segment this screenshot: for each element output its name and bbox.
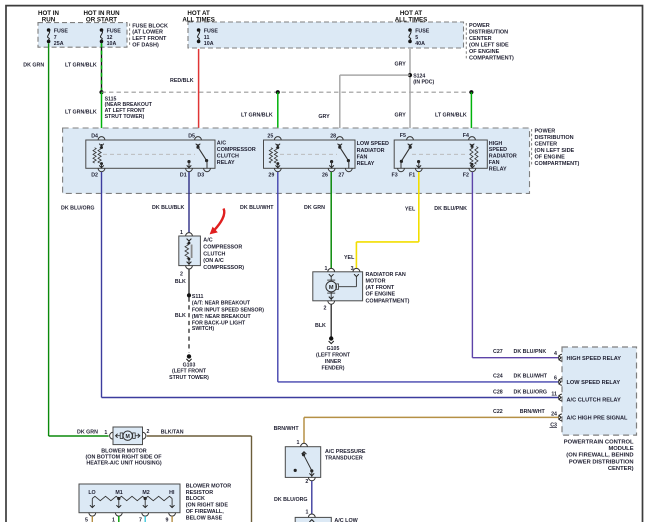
svg-text:FOR INPUT SPEED SENSOR): FOR INPUT SPEED SENSOR) — [192, 307, 264, 313]
svg-text:CENTER: CENTER — [535, 142, 558, 148]
svg-text:LO: LO — [88, 490, 95, 496]
svg-text:LT GRN/BLK: LT GRN/BLK — [65, 63, 97, 69]
svg-text:F4: F4 — [463, 133, 469, 139]
svg-text:(M/T: NEAR BREAKOUT: (M/T: NEAR BREAKOUT — [192, 314, 252, 320]
svg-text:M: M — [329, 285, 334, 291]
svg-text:DK GRN: DK GRN — [23, 63, 44, 69]
svg-text:D5: D5 — [188, 134, 195, 140]
svg-text:7: 7 — [54, 35, 57, 41]
svg-text:FAN: FAN — [357, 155, 368, 161]
svg-text:OF ENGINE: OF ENGINE — [535, 155, 566, 161]
svg-text:(A/T: NEAR BREAKOUT: (A/T: NEAR BREAKOUT — [192, 301, 251, 307]
splice drop to pin 25 — [276, 90, 280, 94]
svg-text:LEFT FRONT: LEFT FRONT — [132, 36, 167, 42]
svg-text:HI: HI — [169, 490, 175, 496]
fuse block (dashed box) — [38, 23, 127, 48]
ground G103 — [187, 354, 191, 358]
svg-text:C22: C22 — [493, 409, 503, 415]
svg-text:LOW SPEED RELAY: LOW SPEED RELAY — [567, 380, 621, 386]
wire LT GRN/BLK splice to relay pin F4 — [470, 92, 472, 140]
blower motor resistor block — [79, 484, 180, 513]
svg-text:DK BLU/ORG: DK BLU/ORG — [514, 390, 548, 396]
wire DK GRN relay 26 to radiator fan motor pin 1 — [330, 172, 332, 268]
splice S115 — [99, 90, 103, 94]
svg-text:STRUT TOWER): STRUT TOWER) — [169, 375, 209, 381]
svg-text:POWERTRAIN CONTROL: POWERTRAIN CONTROL — [564, 440, 634, 446]
svg-text:DK BLU/WHT: DK BLU/WHT — [514, 374, 548, 380]
svg-text:F2: F2 — [463, 173, 469, 179]
svg-text:(ON LEFT SIDE: (ON LEFT SIDE — [535, 148, 575, 154]
svg-text:1: 1 — [306, 510, 309, 516]
svg-text:5: 5 — [85, 518, 88, 522]
relay: high speed radiator fan relay — [394, 140, 487, 168]
svg-text:29: 29 — [268, 173, 274, 179]
svg-text:BLOWER MOTOR: BLOWER MOTOR — [186, 483, 232, 489]
svg-text:DK BLU/WHT: DK BLU/WHT — [240, 205, 274, 211]
svg-text:C27: C27 — [493, 349, 503, 355]
splice bus line from S115 — [102, 91, 472, 93]
svg-text:(ON LEFT SIDE: (ON LEFT SIDE — [469, 43, 509, 49]
svg-text:F3: F3 — [392, 173, 398, 179]
svg-text:M: M — [126, 434, 130, 440]
svg-text:POWER: POWER — [469, 23, 490, 29]
svg-text:BLK: BLK — [175, 279, 186, 285]
switch of relay 2 — [339, 144, 341, 147]
svg-text:OF ENGINE: OF ENGINE — [366, 292, 396, 298]
relay: low speed radiator fan relay — [264, 140, 356, 168]
wire RED/BLK fuse 11 to relay pin D5 — [198, 49, 200, 140]
svg-text:YEL: YEL — [405, 206, 416, 212]
fuse F12 — [100, 28, 104, 32]
svg-text:1: 1 — [112, 518, 115, 522]
svg-text:RESISTOR: RESISTOR — [186, 490, 214, 496]
wire BLK (dashed) S111 to ground G103 — [188, 298, 190, 353]
svg-text:HIGH: HIGH — [489, 141, 503, 147]
power distribution center label (right of relay box) — [531, 129, 533, 165]
svg-text:RELAY: RELAY — [489, 166, 507, 172]
svg-text:DK BLU/PNK: DK BLU/PNK — [514, 349, 547, 355]
svg-text:M2: M2 — [142, 490, 149, 496]
svg-text:BRN/WHT: BRN/WHT — [520, 409, 546, 415]
svg-text:A/C: A/C — [217, 141, 226, 147]
wire BLK clutch pin 2 to S111 — [188, 269, 190, 295]
svg-text:A/C HIGH PRE SIGNAL: A/C HIGH PRE SIGNAL — [567, 416, 628, 422]
svg-text:BELOW BASE: BELOW BASE — [186, 515, 223, 521]
svg-text:(ON RIGHT SIDE: (ON RIGHT SIDE — [186, 503, 229, 509]
svg-text:5: 5 — [415, 35, 418, 41]
svg-text:STRUT TOWER): STRUT TOWER) — [105, 114, 145, 120]
wire DK GRN to blower motor pin 1 — [49, 435, 109, 437]
svg-text:D4: D4 — [91, 134, 98, 140]
svg-text:A/C PRESSURE: A/C PRESSURE — [325, 449, 366, 455]
svg-text:FUSE: FUSE — [204, 29, 219, 35]
svg-text:S111: S111 — [192, 294, 204, 300]
power distribution center fuse box (dashed) — [188, 22, 464, 48]
svg-text:11: 11 — [204, 35, 210, 41]
svg-text:LT GRN/BLK: LT GRN/BLK — [241, 112, 273, 118]
svg-text:CENTER): CENTER) — [608, 466, 634, 472]
svg-text:DK BLU/PNK: DK BLU/PNK — [434, 206, 467, 212]
fuse F7 — [47, 28, 51, 32]
wire stub pin 1 (green) — [118, 516, 120, 522]
svg-text:28: 28 — [330, 134, 336, 140]
svg-text:RADIATOR: RADIATOR — [489, 154, 517, 160]
svg-text:2: 2 — [180, 271, 183, 277]
svg-text:FUSE: FUSE — [415, 29, 430, 35]
svg-text:RELAY: RELAY — [217, 160, 235, 166]
svg-text:MOTOR: MOTOR — [366, 279, 386, 285]
svg-text:27: 27 — [338, 173, 344, 179]
svg-text:BLK: BLK — [175, 313, 186, 319]
wire DK BLU/WHT relay 29 to PCM pin 6 — [277, 172, 279, 382]
wire LT GRN/BLK splice to relay pin 25 — [277, 92, 279, 140]
svg-text:A/C: A/C — [203, 238, 212, 244]
transducer internal switch — [303, 452, 305, 455]
svg-text:11: 11 — [551, 392, 557, 398]
svg-text:(ON A/C: (ON A/C — [203, 258, 224, 264]
svg-text:G105: G105 — [327, 346, 340, 352]
svg-text:2: 2 — [323, 306, 326, 312]
svg-text:BLOCK: BLOCK — [186, 496, 205, 502]
svg-text:24: 24 — [551, 411, 557, 417]
wire YEL relay F1 to radiator fan motor pin 3 — [418, 172, 420, 242]
svg-text:OF DASH): OF DASH) — [132, 42, 159, 48]
svg-text:25A: 25A — [54, 41, 64, 47]
svg-text:DK BLU/BLK: DK BLU/BLK — [152, 205, 185, 211]
svg-text:(AT LOWER: (AT LOWER — [132, 30, 163, 36]
A/C low pressure switch (cut off at page bottom) — [295, 517, 331, 522]
svg-text:FUSE: FUSE — [54, 29, 69, 35]
svg-text:2: 2 — [305, 479, 308, 485]
svg-text:D3: D3 — [197, 173, 204, 179]
wire stub pin 9 (tan) — [171, 516, 173, 522]
svg-text:BLK/TAN: BLK/TAN — [161, 430, 184, 436]
svg-text:FUSE: FUSE — [107, 29, 122, 35]
svg-text:9: 9 — [166, 518, 169, 522]
svg-text:DK BLU/ORG: DK BLU/ORG — [274, 497, 308, 503]
svg-text:G103: G103 — [183, 362, 196, 368]
splice S124 — [408, 73, 412, 77]
svg-text:1: 1 — [104, 430, 107, 436]
svg-text:YEL: YEL — [344, 255, 355, 261]
svg-text:(ON BOTTOM RIGHT SIDE OF: (ON BOTTOM RIGHT SIDE OF — [86, 455, 163, 461]
svg-text:BLOWER MOTOR: BLOWER MOTOR — [101, 449, 147, 455]
svg-text:FUSE BLOCK: FUSE BLOCK — [132, 23, 168, 29]
svg-text:D2: D2 — [91, 173, 98, 179]
svg-text:RELAY: RELAY — [357, 161, 375, 167]
wire DK BLU/ORG transducer pin 2 to A/C low pressure switch — [311, 481, 313, 514]
svg-text:A/C LOW: A/C LOW — [334, 518, 358, 522]
svg-text:7: 7 — [139, 518, 142, 522]
blower motor — [113, 427, 143, 445]
fuse block label — [129, 24, 131, 47]
switch of relay 1 — [197, 144, 199, 147]
svg-text:COMPARTMENT): COMPARTMENT) — [469, 56, 514, 62]
svg-text:DISTRIBUTION: DISTRIBUTION — [535, 135, 574, 141]
svg-text:40A: 40A — [415, 41, 425, 47]
wire DK BLU/BLK relay D1 to A/C compressor clutch — [188, 172, 190, 233]
svg-text:COMPRESSOR): COMPRESSOR) — [203, 265, 244, 271]
svg-text:C28: C28 — [493, 390, 503, 396]
fuse F11 — [197, 28, 201, 32]
svg-text:DK BLU/ORG: DK BLU/ORG — [61, 205, 95, 211]
svg-text:HEATER-A/C UNIT HOUSING): HEATER-A/C UNIT HOUSING) — [86, 461, 162, 467]
motor symbol — [330, 277, 332, 281]
svg-text:INNER: INNER — [325, 359, 341, 365]
svg-text:DISTRIBUTION: DISTRIBUTION — [469, 30, 508, 36]
svg-text:COMPARTMENT): COMPARTMENT) — [535, 161, 580, 167]
svg-text:(LEFT FRONT: (LEFT FRONT — [172, 369, 207, 375]
svg-text:POWER: POWER — [535, 129, 556, 135]
wire LT GRN/BLK fuse12 to S115 (dashed) — [101, 43, 103, 92]
svg-text:4: 4 — [554, 351, 557, 357]
svg-text:BRN/WHT: BRN/WHT — [274, 426, 300, 432]
svg-text:FENDER): FENDER) — [321, 366, 344, 372]
wire GRY branch S124 to relay pin 28 — [340, 74, 410, 76]
svg-text:SWITCH): SWITCH) — [192, 326, 214, 332]
svg-text:HIGH SPEED RELAY: HIGH SPEED RELAY — [567, 356, 622, 362]
svg-text:LT GRN/BLK: LT GRN/BLK — [65, 109, 97, 115]
wire DK GRN from fuse 7 down to blower motor — [48, 43, 50, 436]
power distribution center label (top) — [465, 23, 467, 59]
relay: A/C compressor clutch relay — [86, 140, 215, 168]
A/C compressor clutch coil — [179, 236, 201, 266]
svg-text:CLUTCH: CLUTCH — [203, 251, 225, 257]
svg-text:DK GRN: DK GRN — [304, 205, 325, 211]
svg-text:COMPRESSOR: COMPRESSOR — [203, 244, 242, 250]
wire BRN/WHT A/C pressure transducer to PCM pin 24 — [304, 416, 559, 418]
resistor chain — [92, 496, 119, 500]
red annotation arrow — [214, 209, 224, 231]
wire BLK/TAN blower pin 2 down off page — [147, 435, 252, 437]
svg-text:2: 2 — [147, 429, 150, 435]
svg-text:10A: 10A — [204, 41, 214, 47]
svg-text:COMPRESSOR: COMPRESSOR — [217, 147, 256, 153]
coil of relay 2 — [269, 148, 272, 163]
svg-text:(ON FIREWALL, BEHIND: (ON FIREWALL, BEHIND — [566, 453, 633, 459]
svg-text:RADIATOR FAN: RADIATOR FAN — [366, 272, 406, 278]
coil of relay 1 — [93, 148, 96, 163]
splice S111 — [187, 293, 191, 297]
wire LT GRN/BLK S115 to relay pin D4 — [101, 92, 103, 140]
svg-text:25: 25 — [267, 134, 273, 140]
A/C pressure transducer — [285, 447, 320, 478]
svg-text:C24: C24 — [493, 374, 503, 380]
svg-text:COMPARTMENT): COMPARTMENT) — [366, 298, 410, 304]
svg-text:LT GRN/BLK: LT GRN/BLK — [435, 112, 467, 118]
svg-text:BLK: BLK — [315, 323, 326, 329]
svg-text:FAN: FAN — [489, 160, 500, 166]
svg-text:RED/BLK: RED/BLK — [170, 78, 194, 84]
wire stub pin 7 (cyan) — [144, 516, 146, 522]
power distribution center relay box (dashed) — [63, 128, 530, 193]
clutch coil zigzag — [185, 244, 189, 259]
svg-text:1: 1 — [325, 266, 328, 272]
svg-text:10A: 10A — [107, 41, 117, 47]
svg-text:RADIATOR: RADIATOR — [357, 148, 385, 154]
svg-text:F5: F5 — [400, 133, 406, 139]
splice drop to pin F4 — [469, 90, 473, 94]
svg-text:12: 12 — [107, 35, 113, 41]
svg-text:GRY: GRY — [395, 112, 407, 118]
coil of relay 3 — [470, 147, 473, 165]
svg-text:(AT FRONT: (AT FRONT — [366, 285, 395, 291]
svg-text:MODULE: MODULE — [608, 446, 633, 452]
svg-text:26: 26 — [322, 173, 328, 179]
svg-text:D1: D1 — [180, 173, 187, 179]
svg-text:1: 1 — [180, 230, 183, 236]
svg-text:A/C CLUTCH RELAY: A/C CLUTCH RELAY — [567, 397, 621, 403]
svg-text:M1: M1 — [115, 490, 122, 496]
switch of relay 3 — [409, 144, 411, 147]
svg-text:(IN PDC): (IN PDC) — [413, 79, 434, 85]
svg-text:GRY: GRY — [318, 114, 330, 120]
svg-text:6: 6 — [554, 376, 557, 382]
wire DK BLU/PNK relay F2 to PCM pin 4 — [471, 172, 473, 358]
svg-text:1: 1 — [297, 440, 300, 446]
svg-text:LOW SPEED: LOW SPEED — [357, 141, 389, 147]
svg-text:POWER DISTRIBUTION: POWER DISTRIBUTION — [569, 459, 634, 465]
svg-text:(LEFT FRONT: (LEFT FRONT — [316, 353, 351, 359]
fuse F5 — [408, 28, 412, 32]
svg-text:GRY: GRY — [395, 61, 407, 67]
svg-text:F1: F1 — [409, 173, 415, 179]
wire DK BLU/ORG relay D2 to PCM pin 11 — [101, 172, 103, 398]
svg-text:OF FIREWALL,: OF FIREWALL, — [186, 509, 225, 515]
ground G105 — [329, 336, 333, 340]
svg-text:CENTER: CENTER — [469, 36, 492, 42]
svg-text:OF ENGINE: OF ENGINE — [469, 49, 500, 55]
powertrain control module (dashed box) — [562, 347, 637, 435]
svg-text:CLUTCH: CLUTCH — [217, 154, 239, 160]
radiator fan motor — [313, 272, 363, 301]
svg-text:DK GRN: DK GRN — [77, 430, 98, 436]
wire GRY fuse 9 to relay pin F5 — [409, 49, 411, 140]
svg-text:SPEED: SPEED — [489, 147, 507, 153]
wire stub pin 5 (tan) — [91, 516, 93, 522]
svg-text:TRANSDUCER: TRANSDUCER — [325, 455, 363, 461]
wire BLK fan motor pin 2 to ground G105 — [330, 304, 332, 336]
